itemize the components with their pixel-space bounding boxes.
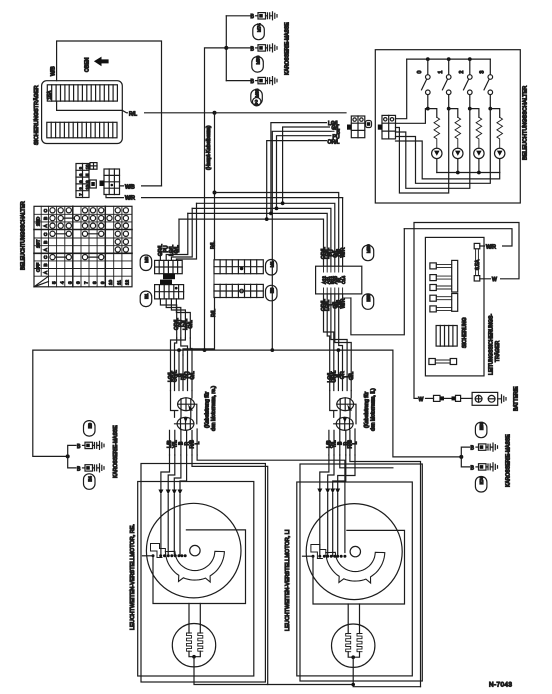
wire LG/L jog bbox=[171, 338, 186, 391]
switch 3 bbox=[480, 59, 493, 109]
wire G/L jog bbox=[190, 338, 192, 391]
node right grounds split bbox=[459, 455, 463, 459]
wires frame to right coils bbox=[348, 604, 359, 625]
lamp 2 bbox=[453, 148, 463, 172]
svg-text:7: 7 bbox=[84, 281, 89, 284]
svg-text:B: B bbox=[471, 465, 475, 471]
wire OR/L jog bbox=[324, 294, 334, 391]
connector label E55 bbox=[362, 293, 374, 309]
wire R/L main harness vertical (Haupt-Kabelbaum) bbox=[206, 113, 217, 260]
wire run W/R (row2) to M59 bbox=[342, 198, 344, 267]
ground connector M74 bbox=[226, 12, 277, 20]
svg-text:KAROSSERIE-MASSE: KAROSSERIE-MASSE bbox=[506, 434, 512, 487]
numbered connector grid 7/2/9/6 10/8/5/3 bbox=[76, 164, 90, 198]
left motor pivot circle bbox=[190, 545, 200, 555]
wire G/L from switch bbox=[283, 127, 346, 203]
ground connector E53 bbox=[471, 443, 498, 451]
svg-text:TRÄGER: TRÄGER bbox=[494, 340, 501, 362]
label LEUCHTWEITEN-VERSTELLMOTOR RE bbox=[130, 524, 136, 630]
junction dots on runs bbox=[269, 212, 273, 216]
small aux connector 2x2 bbox=[90, 163, 97, 170]
svg-text:KAROSSERIE-MASSE: KAROSSERIE-MASSE bbox=[285, 22, 291, 75]
wire LG/L to M3 bbox=[171, 208, 192, 260]
node R/L branch at run OR bbox=[213, 191, 217, 195]
label KAROSSERIE-MASSE right bbox=[506, 434, 512, 487]
label SICHERUNG bbox=[462, 317, 468, 348]
ground connector M68 bbox=[226, 77, 277, 85]
wire run LG/L (row5) bbox=[188, 213, 327, 266]
wires below right round connector bbox=[329, 429, 355, 455]
svg-text:(Kabelstrang für: (Kabelstrang für bbox=[205, 391, 211, 428]
node return junction bbox=[351, 683, 355, 687]
ground symbol label E53 bbox=[475, 422, 487, 438]
wire lamp common bus bbox=[437, 172, 500, 174]
ground symbol label M56 bbox=[252, 55, 263, 72]
wire R/L below E3 down and jog to bundle bbox=[183, 298, 217, 356]
svg-text:M74: M74 bbox=[257, 23, 262, 32]
wire R/B along right box edge down bbox=[350, 455, 421, 687]
label KAROSSERIE-MASSE left bbox=[113, 425, 119, 478]
svg-text:E1: E1 bbox=[144, 293, 149, 299]
lighting switch box outline bbox=[375, 50, 520, 203]
label SICHERUNGSTRAEGER bbox=[33, 85, 40, 145]
label BELEUCHTUNGSSCHALTER right bbox=[523, 86, 529, 160]
wire B run to left grounds bbox=[33, 350, 393, 456]
wire run G/L (row3) bbox=[197, 203, 335, 266]
pin stubs through box bbox=[324, 266, 343, 294]
table contact circles bbox=[50, 208, 129, 260]
node motor common bbox=[192, 655, 196, 659]
node bus dots bbox=[426, 57, 472, 61]
switch wire labels bbox=[327, 119, 347, 146]
wire L into right motor deep bbox=[338, 455, 355, 489]
svg-text:B: B bbox=[251, 14, 255, 20]
wire W from link around to battery bbox=[414, 223, 519, 399]
connector label M59 bbox=[362, 244, 374, 261]
svg-text:G/L: G/L bbox=[190, 371, 196, 379]
ground symbol label M68 bbox=[251, 88, 262, 105]
resistor branch 1 bbox=[428, 109, 440, 149]
svg-text:E74: E74 bbox=[479, 476, 484, 484]
svg-text:B: B bbox=[43, 241, 48, 244]
inline connector pair battery feed bbox=[434, 395, 473, 401]
svg-text:BELEUCHTUNGSSCHALTER: BELEUCHTUNGSSCHALTER bbox=[523, 86, 529, 160]
resistor branch 3 bbox=[470, 109, 482, 149]
svg-text:KAROSSERIE-MASSE: KAROSSERIE-MASSE bbox=[113, 425, 119, 478]
ground connector E4 bbox=[77, 464, 104, 472]
svg-text:G/L: G/L bbox=[349, 372, 355, 380]
node R/L main junction bbox=[213, 111, 217, 115]
switch 1 bbox=[438, 59, 451, 109]
wire B run elbow to right grounds bbox=[393, 350, 461, 457]
left motor outer box bbox=[141, 464, 265, 683]
svg-text:LEITUNGSSICHERUNGS-: LEITUNGSSICHERUNGS- bbox=[488, 314, 494, 375]
ground symbol label E4 bbox=[84, 474, 96, 490]
svg-text:B: B bbox=[251, 46, 255, 52]
svg-text:W/R: W/R bbox=[341, 247, 347, 257]
left lower bundle labels bbox=[167, 439, 201, 448]
svg-text:8: 8 bbox=[92, 281, 97, 284]
node switch output dots bbox=[426, 107, 492, 111]
wire R/B along box edge down bbox=[192, 455, 268, 685]
svg-text:1ST: 1ST bbox=[36, 239, 41, 248]
right motor gear circle bbox=[306, 504, 402, 600]
svg-text:B: B bbox=[77, 444, 81, 450]
connector E3 grid bbox=[214, 274, 263, 298]
wires frame to motor coils bbox=[189, 604, 200, 625]
battery bbox=[472, 386, 519, 411]
fusible link group 1 (3 links) bbox=[430, 260, 458, 292]
svg-text:3: 3 bbox=[67, 281, 72, 284]
wire R into motor bbox=[180, 455, 187, 490]
lighting switch position table BELEUCHTUNGSSCHALTER bbox=[21, 201, 133, 287]
wire W/B to riser bbox=[120, 182, 162, 191]
connector M1 grid bbox=[214, 260, 263, 274]
wire R/L to lighting switch bbox=[215, 112, 347, 114]
svg-text:BELEUCHTUNGSSCHALTER: BELEUCHTUNGSSCHALTER bbox=[21, 201, 27, 270]
wire L jog bbox=[331, 294, 347, 391]
svg-text:W/R: W/R bbox=[341, 298, 347, 308]
switch 2 bbox=[459, 59, 472, 109]
wire Y/L into motor bbox=[168, 455, 175, 490]
wire OR/L to M3 bbox=[160, 219, 179, 260]
svg-text:12: 12 bbox=[125, 279, 130, 285]
svg-text:M3: M3 bbox=[144, 256, 149, 263]
svg-text:B: B bbox=[43, 217, 48, 220]
svg-text:OFF: OFF bbox=[36, 263, 41, 272]
fuse row 1 (16 fuses) bbox=[47, 85, 117, 101]
wire B branch to right bundle bbox=[337, 350, 339, 390]
connector grid W/B W/R bbox=[100, 169, 120, 195]
wire feed R/L inside switch box bbox=[396, 59, 407, 119]
svg-text:den Motorraum, li.): den Motorraum, li.) bbox=[371, 388, 377, 431]
svg-text:R/L: R/L bbox=[211, 309, 217, 317]
label LEITUNGSSICHERUNGS-TRAEGER bbox=[488, 314, 501, 375]
wire return switch 2 nested bbox=[396, 109, 470, 189]
right motor contact dots bbox=[312, 555, 347, 558]
wire OR/L from switch bbox=[267, 141, 346, 220]
svg-text:E9: E9 bbox=[87, 422, 92, 428]
left motor contact dots bbox=[152, 554, 187, 557]
labels below E55 bbox=[321, 298, 347, 311]
svg-text:SICHERUNG: SICHERUNG bbox=[462, 317, 468, 348]
wire R/L into bundle bbox=[182, 355, 184, 391]
wire run OR (row1) bbox=[215, 193, 339, 267]
wire B into motor bbox=[174, 455, 181, 490]
svg-text:R/L: R/L bbox=[211, 241, 217, 249]
wires from pins to contact row bbox=[161, 495, 180, 556]
svg-text:1: 1 bbox=[438, 71, 444, 74]
ground symbol label M74 bbox=[253, 23, 264, 40]
arrow OBEN (points left) bbox=[85, 57, 109, 72]
svg-text:R/L: R/L bbox=[129, 112, 137, 118]
connector E1 grid bbox=[155, 280, 184, 299]
bolt square bbox=[90, 180, 97, 188]
wire B to ground tee bbox=[340, 455, 393, 468]
wire run OR/L (row6) bbox=[179, 219, 324, 266]
label Kabelstrang fuer den Motorraum li bbox=[364, 388, 377, 431]
diagonal cell bbox=[34, 276, 49, 287]
wire ground bus bbox=[205, 16, 227, 350]
fusible link single bottom bbox=[429, 359, 457, 365]
node right motor common bbox=[351, 655, 355, 659]
switch 0 bbox=[417, 59, 430, 109]
wire R into right motor bbox=[333, 455, 346, 489]
right motor inner box bbox=[297, 482, 413, 676]
lamp 1 bbox=[432, 148, 442, 172]
svg-text:E53: E53 bbox=[479, 422, 484, 430]
wire W/R below E55 to fuse link bbox=[343, 229, 405, 335]
wire G/L jog bbox=[335, 294, 351, 391]
svg-text:9: 9 bbox=[100, 281, 105, 284]
right motor internal frame bbox=[303, 530, 405, 604]
drawing number N-7043 bbox=[489, 682, 512, 689]
svg-text:E4: E4 bbox=[87, 476, 92, 482]
wire B elbow from run bbox=[178, 350, 180, 390]
svg-text:M56: M56 bbox=[256, 55, 261, 64]
svg-text:OR/L: OR/L bbox=[328, 139, 340, 145]
pin triangles left motor bbox=[158, 490, 182, 495]
right motor outer box bbox=[300, 464, 422, 681]
splice circle 2 bbox=[253, 98, 261, 106]
fuse row 2 (16 fuses) bbox=[47, 122, 117, 138]
svg-text:E55: E55 bbox=[366, 293, 371, 301]
wire right motor return bbox=[353, 657, 420, 687]
ground bracket E53/E74 bbox=[461, 447, 469, 467]
wire return switch 0 direct bbox=[396, 109, 426, 124]
wire L/B into right motor bbox=[320, 455, 329, 489]
connector M59/E55 box bbox=[316, 266, 362, 294]
svg-text:10: 10 bbox=[108, 279, 113, 285]
node ground bus junction bbox=[224, 46, 228, 50]
fusible link group 2 (2 links) bbox=[430, 294, 458, 312]
wire run PU (row4) bbox=[192, 208, 331, 266]
wire PU from switch bbox=[277, 136, 347, 209]
wire Y/L into right motor bbox=[328, 455, 334, 489]
wire switch bus bbox=[407, 58, 491, 60]
right lower bundle labels bbox=[327, 439, 359, 448]
wire W/R from connector bracket to run bbox=[106, 193, 343, 202]
fusible link 6.5A bbox=[474, 243, 481, 281]
lamp 4 bbox=[495, 148, 505, 172]
right motor coils bbox=[346, 625, 362, 658]
svg-text:B: B bbox=[43, 263, 48, 266]
wire W/B from fuse box up and over to connector bbox=[51, 41, 162, 186]
svg-text:W: W bbox=[419, 397, 424, 403]
ground connector E74 bbox=[471, 463, 498, 471]
connector label M1 bbox=[266, 260, 278, 276]
right motor coil circle bbox=[332, 624, 375, 667]
svg-text:B: B bbox=[471, 446, 475, 452]
left motor gear circle bbox=[146, 503, 241, 598]
wire OR jog bbox=[339, 294, 343, 391]
svg-text:W/R: W/R bbox=[486, 244, 496, 250]
svg-text:11: 11 bbox=[116, 280, 121, 285]
connector label E3 bbox=[266, 285, 278, 301]
svg-text:L: L bbox=[353, 442, 359, 445]
svg-text:SICHERUNGSTRÄGER: SICHERUNGSTRÄGER bbox=[33, 85, 40, 145]
wires below E1 with jog right bbox=[160, 299, 190, 338]
wire L crossover to right motor bbox=[197, 455, 345, 553]
svg-text:6: 6 bbox=[76, 281, 81, 284]
svg-text:W/B: W/B bbox=[51, 66, 57, 76]
wire B return nested path bbox=[396, 141, 500, 179]
ground symbol label E9 bbox=[84, 421, 96, 437]
connector label E1 bbox=[140, 291, 152, 307]
wire L/B into motor bbox=[161, 455, 170, 490]
svg-text:M59: M59 bbox=[366, 244, 371, 253]
svg-text:3: 3 bbox=[480, 71, 486, 74]
resistor branch 2 bbox=[449, 109, 461, 149]
svg-text:Y/L: Y/L bbox=[173, 440, 179, 448]
svg-text:(Kabelstrang für: (Kabelstrang für bbox=[364, 391, 370, 428]
svg-text:N-7043: N-7043 bbox=[489, 682, 512, 689]
wire G/L to M3 bbox=[176, 203, 196, 260]
table contact links bbox=[55, 218, 99, 257]
ground connector E9 bbox=[77, 441, 104, 449]
left bundle labels bbox=[168, 370, 196, 382]
grid lines bbox=[34, 206, 132, 286]
connector label M3 bbox=[140, 255, 152, 271]
wires below left round connector bbox=[170, 429, 198, 455]
right motor pivot circle bbox=[350, 546, 360, 556]
svg-text:BATTERIE: BATTERIE bbox=[514, 386, 520, 411]
fuse 15A label bbox=[47, 90, 53, 100]
svg-text:G/L: G/L bbox=[188, 320, 194, 328]
svg-text:2ND: 2ND bbox=[36, 216, 41, 226]
fuse block grid bbox=[436, 326, 457, 347]
svg-text:LEUCHTWEITEN-VERSTELLMOTOR, LI: LEUCHTWEITEN-VERSTELLMOTOR, LI bbox=[285, 529, 291, 631]
wire LG/L jog bbox=[327, 294, 330, 391]
left motor coil circle bbox=[172, 624, 215, 667]
labels above M59 bbox=[321, 247, 347, 259]
wire W/R from link up over to run bbox=[404, 229, 512, 251]
connector M5 harness side bbox=[347, 116, 372, 138]
label LEUCHTWEITEN-VERSTELLMOTOR LI bbox=[285, 529, 291, 631]
svg-text:B: B bbox=[251, 79, 255, 85]
wire OR/L jog bbox=[175, 338, 177, 391]
wire return switch 1 nested bbox=[396, 109, 449, 193]
table outline bbox=[34, 206, 132, 286]
wire PU jog bbox=[181, 338, 188, 391]
left motor cam plate bbox=[151, 544, 225, 583]
left motor inner box bbox=[138, 482, 254, 677]
labels above M3 bbox=[158, 244, 180, 256]
left motor internal frame bbox=[143, 530, 246, 604]
svg-text:G/L: G/L bbox=[174, 245, 180, 253]
pin triangles right motor bbox=[317, 489, 340, 494]
wire LG/L from switch bbox=[271, 123, 346, 214]
svg-text:W: W bbox=[492, 277, 497, 283]
group separator thick lines bbox=[34, 230, 132, 254]
lamp 3 bbox=[474, 148, 484, 172]
svg-text:(Haupt-Kabelbaum): (Haupt-Kabelbaum) bbox=[206, 125, 212, 170]
wire PU to M3 bbox=[166, 213, 188, 260]
wires from pins to contact row bbox=[320, 494, 338, 557]
labels below E1 bbox=[174, 318, 194, 330]
ground bracket E9/E4 bbox=[68, 445, 76, 468]
table header labels bbox=[36, 208, 130, 285]
svg-text:OBEN: OBEN bbox=[85, 57, 91, 72]
right motor cam plate bbox=[311, 545, 385, 584]
round connector pair right (Kabelstrang li) bbox=[330, 391, 356, 431]
svg-text:2: 2 bbox=[459, 71, 465, 74]
fuse box SICHERUNGSTRAEGER outline bbox=[42, 81, 123, 144]
svg-text:0: 0 bbox=[417, 71, 423, 74]
svg-text:M68: M68 bbox=[255, 88, 260, 97]
svg-text:10: 10 bbox=[85, 164, 90, 169]
ground connector M56 bbox=[226, 44, 277, 52]
svg-text:15A: 15A bbox=[47, 90, 53, 100]
svg-text:den Motorraum, re.): den Motorraum, re.) bbox=[211, 386, 217, 431]
svg-text:W/R: W/R bbox=[125, 196, 135, 202]
svg-text:4: 4 bbox=[59, 281, 64, 284]
svg-text:B: B bbox=[77, 466, 81, 472]
label Kabelstrang fuer den Motorraum re bbox=[205, 386, 218, 431]
ground symbol label E74 bbox=[475, 476, 487, 492]
svg-text:L: L bbox=[195, 442, 201, 445]
wire W label at battery bbox=[419, 397, 434, 403]
right bundle labels bbox=[327, 370, 355, 382]
node E9/E4 split bbox=[66, 454, 70, 458]
left motor coils bbox=[187, 624, 203, 657]
fusible link box LEITUNGSSICHERUNGSTRAEGER bbox=[425, 237, 484, 376]
svg-text:C14: C14 bbox=[341, 275, 346, 284]
resistor branch 4 bbox=[490, 109, 502, 149]
svg-text:6.5A: 6.5A bbox=[475, 259, 481, 270]
wire return switch 3 nested bbox=[396, 109, 491, 184]
svg-text:5: 5 bbox=[51, 281, 56, 284]
wire left motor return bbox=[194, 657, 353, 685]
wire R/L from fuse box to junction bbox=[122, 108, 214, 118]
label KAROSSERIE-MASSE top bbox=[285, 22, 291, 75]
svg-text:W/B: W/B bbox=[125, 185, 135, 191]
wire R/L inside fuse box to exit bbox=[57, 101, 123, 110]
connector M3 grid bbox=[155, 260, 183, 279]
svg-text:LEUCHTWEITEN-VERSTELLMOTOR, RE: LEUCHTWEITEN-VERSTELLMOTOR, RE. bbox=[130, 524, 136, 630]
connector switch side bbox=[378, 115, 396, 138]
wire B from switch (long down to B-run) bbox=[272, 131, 346, 350]
round connector pair left (Kabelstrang) bbox=[171, 391, 197, 431]
pin labels A12 A11 B12 A10 F1 C14 bbox=[322, 275, 347, 284]
